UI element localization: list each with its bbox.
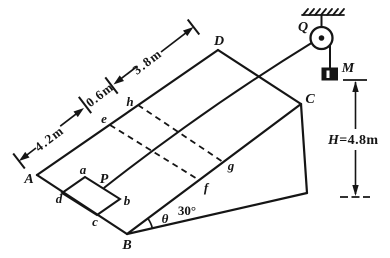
svg-text:θ: θ [162,211,169,226]
ceiling hatch [302,9,344,15]
svg-text:d: d [56,191,63,206]
svg-text:D: D [213,34,224,49]
svg-text:A: A [23,172,33,187]
svg-text:H=4.8m: H=4.8m [327,133,378,148]
svg-text:a: a [80,162,87,177]
svg-text:30°: 30° [178,203,196,218]
svg-text:c: c [92,214,98,229]
dimension H arrow up [352,81,358,129]
dimension H bottom tick [340,196,370,198]
dashed line h-g [138,105,223,162]
block abcd on incline [62,177,120,215]
pulley support [321,15,323,29]
svg-text:b: b [124,193,131,208]
dimension 3.8m arrow left [114,66,138,84]
dimension tick T4 at D [188,20,200,35]
pulley Q [311,27,333,49]
svg-text:M: M [341,61,355,76]
mass M block [322,68,339,81]
wire edge D-C [218,50,301,104]
wire edge C-E right vertical [301,104,307,193]
svg-text:g: g [227,158,235,173]
dimension H arrow down [352,150,358,196]
wire rope pulley to mass [329,45,331,68]
svg-text:h: h [126,94,133,109]
svg-text:f: f [204,180,210,195]
svg-text:Q: Q [298,20,308,35]
svg-text:C: C [305,92,315,107]
svg-text:3.8m: 3.8m [130,45,165,77]
dimension H top tick [343,79,367,81]
svg-text:B: B [121,238,131,253]
svg-text:4.2m: 4.2m [32,122,67,154]
svg-text:e: e [101,111,107,126]
wire edge E-B bottom [127,193,307,234]
wire edge C-B [127,104,301,234]
dimension 4.2m arrow left [19,148,36,161]
dashed line e-f [110,125,199,180]
wire edge A-D [37,50,218,175]
angle arc at B [148,218,153,228]
dimension 4.2m arrow right [60,108,84,126]
dimension 3.8m arrow right [161,27,194,52]
wire edge B-A [37,175,127,234]
dimension tick T2 at e [79,97,91,113]
svg-text:P: P [100,172,109,187]
svg-text:0.6m: 0.6m [83,79,117,110]
dimension tick T1 at A [13,154,25,169]
dimension tick T3 at h [105,77,117,93]
wire rope P to pulley [105,43,312,188]
